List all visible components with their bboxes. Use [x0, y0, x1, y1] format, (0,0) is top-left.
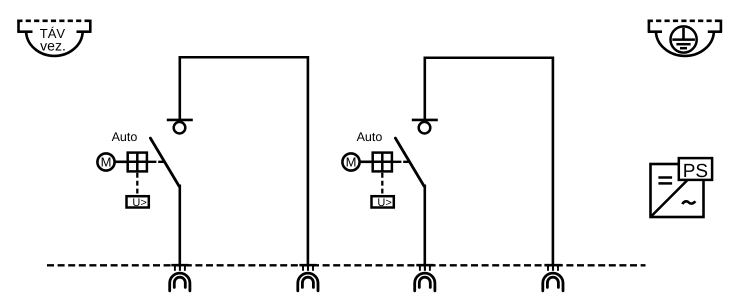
feeder 1 switch blade (open) [150, 138, 179, 186]
dashed link box to relay feeder 2 [381, 173, 383, 195]
left foot [648, 30, 662, 33]
fork prongs [547, 266, 549, 271]
left foot [17, 30, 32, 33]
motor drive box (crossed) feeder 2 [373, 153, 392, 172]
feeder 1 lower wire [179, 185, 182, 266]
converter diagonal [651, 164, 704, 217]
overvoltage relay U> box feeder 1 [127, 196, 149, 207]
AC symbol tilde [682, 201, 695, 204]
PS label box [679, 158, 712, 180]
feeder 1 drop wire to contact [179, 56, 182, 119]
fork prongs [302, 266, 304, 271]
motor M1 circle [97, 153, 114, 170]
bowl arc [656, 31, 714, 56]
feeder 1 right wire [307, 56, 310, 265]
svg-text:PS: PS [683, 161, 708, 182]
fork prongs [419, 266, 421, 271]
bowl arc [26, 31, 83, 56]
right foot [708, 30, 722, 33]
wire motor to drive box [360, 161, 373, 164]
withdrawable contact fork C (x=425) [415, 265, 435, 291]
withdrawable contact fork D (x=553) [543, 265, 563, 291]
motor M2 circle [342, 153, 359, 170]
fork inner horseshoe [174, 277, 185, 287]
dashed withdrawal boundary bus [47, 264, 646, 266]
withdrawable contact fork B (x=308) [298, 265, 318, 291]
right vertical [720, 20, 723, 32]
cross vertical [381, 153, 384, 172]
dashed link box to blade feeder 1 [148, 161, 166, 163]
power supply PS converter square [651, 164, 704, 217]
svg-text:U>: U> [377, 197, 391, 209]
remote control symbol frame (TAV vez.) [17, 20, 92, 56]
cross vertical [136, 153, 139, 172]
earth bar long [672, 38, 695, 41]
wire motor to drive box [115, 161, 128, 164]
svg-text:U>: U> [132, 197, 146, 209]
fork bar [299, 264, 316, 267]
feeder 2 lower wire [423, 185, 426, 266]
fork inner horseshoe [419, 277, 430, 287]
fork bar [171, 264, 188, 267]
feeder 2 switch blade (open) [395, 138, 424, 186]
fork bar [544, 264, 561, 267]
dashed link box to relay feeder 1 [136, 173, 138, 195]
feeder 2 fixed contact circle [419, 122, 431, 134]
earth stem [682, 28, 685, 39]
dashed top edge [648, 19, 722, 22]
feeder 2 right wire [552, 57, 555, 266]
withdrawable contact fork A (x=180) [170, 265, 190, 291]
svg-text:Auto: Auto [357, 130, 383, 144]
cross horizontal [373, 161, 392, 164]
overvoltage relay U> box feeder 2 [372, 196, 394, 207]
feeder 1 top bus wire [180, 56, 308, 59]
svg-text:M: M [101, 155, 112, 170]
fork outer horseshoe [543, 273, 563, 291]
svg-text:M: M [346, 155, 357, 170]
feeder 2 top bus wire [425, 56, 553, 59]
feeder 1 fixed contact T-bar [167, 119, 193, 122]
fork prongs [174, 266, 176, 271]
fork bar [416, 264, 433, 267]
motor drive box (crossed) feeder 1 [128, 153, 147, 172]
left vertical [648, 20, 651, 32]
right vertical [89, 20, 92, 32]
fork outer horseshoe [415, 273, 435, 291]
feeder 2 fixed contact T-bar [412, 119, 438, 122]
svg-text:vez.: vez. [40, 37, 66, 53]
dashed top edge [17, 19, 92, 22]
feeder 1 fixed contact circle [174, 122, 186, 134]
fork inner horseshoe [547, 277, 558, 287]
feeder 2 drop wire to contact [423, 57, 426, 120]
left vertical [17, 20, 20, 32]
DC symbol = top bar [658, 176, 672, 179]
cross horizontal [128, 161, 147, 164]
svg-text:Auto: Auto [112, 130, 138, 144]
DC symbol = bottom bar [658, 182, 672, 185]
fork outer horseshoe [170, 273, 190, 291]
fork outer horseshoe [298, 273, 318, 291]
right foot [77, 30, 92, 33]
earth bar short [680, 47, 687, 50]
dashed link box to blade feeder 2 [393, 161, 411, 163]
earth bar middle [676, 43, 690, 46]
protective earth circle [671, 26, 697, 52]
fork inner horseshoe [302, 277, 313, 287]
earth symbol frame [648, 20, 722, 56]
